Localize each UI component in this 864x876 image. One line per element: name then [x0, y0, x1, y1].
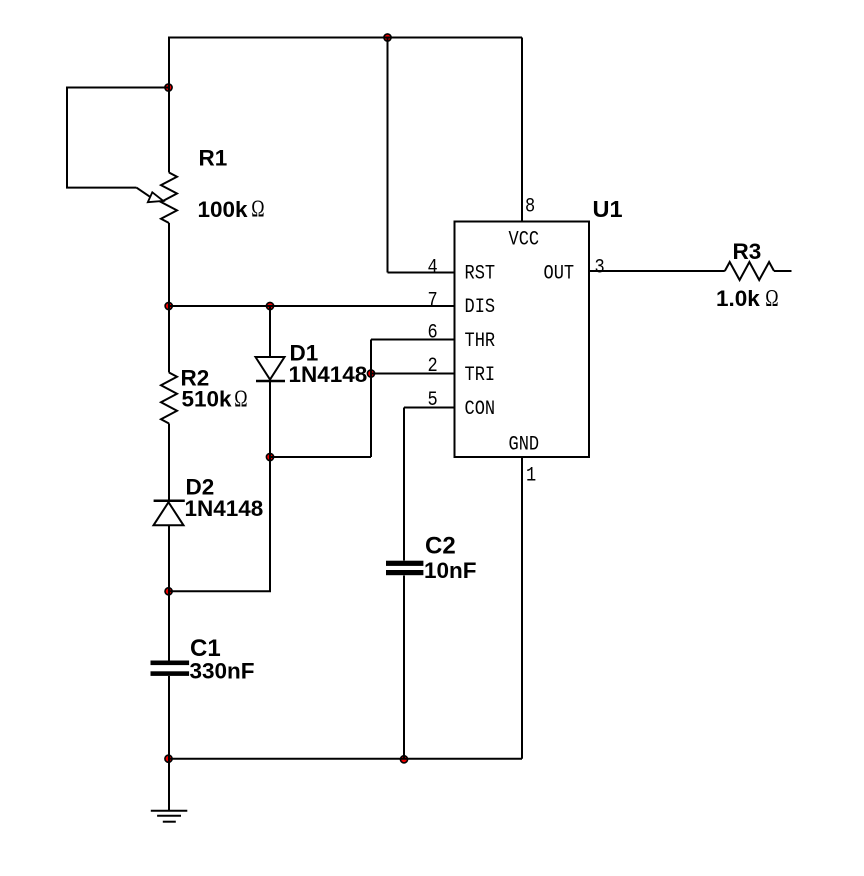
svg-text:GND: GND	[509, 433, 540, 456]
svg-text:4: 4	[428, 256, 438, 279]
svg-text:1N4148: 1N4148	[289, 362, 368, 387]
svg-text:VCC: VCC	[509, 228, 540, 251]
svg-text:C1: C1	[190, 635, 221, 662]
svg-text:OUT: OUT	[544, 262, 575, 285]
svg-text:DIS: DIS	[465, 296, 496, 319]
svg-text:3: 3	[595, 256, 605, 279]
svg-text:Ω: Ω	[234, 385, 247, 412]
svg-text:2: 2	[428, 355, 438, 378]
svg-text:1: 1	[526, 464, 536, 487]
svg-text:TRI: TRI	[465, 364, 496, 387]
svg-text:R1: R1	[199, 146, 228, 171]
svg-text:8: 8	[525, 195, 535, 218]
svg-text:1N4148: 1N4148	[185, 496, 264, 521]
svg-text:R3: R3	[733, 239, 762, 264]
svg-text:THR: THR	[465, 330, 496, 353]
svg-text:RST: RST	[465, 262, 496, 285]
svg-text:1.0k: 1.0k	[716, 286, 760, 311]
svg-text:U1: U1	[593, 196, 623, 222]
svg-text:7: 7	[428, 289, 438, 312]
svg-text:CON: CON	[465, 398, 496, 421]
svg-text:C2: C2	[425, 533, 456, 560]
svg-text:Ω: Ω	[251, 195, 264, 222]
svg-text:Ω: Ω	[765, 284, 778, 311]
svg-text:10nF: 10nF	[424, 558, 477, 583]
svg-text:510k: 510k	[182, 387, 233, 412]
svg-text:330nF: 330nF	[190, 659, 255, 684]
svg-text:5: 5	[428, 389, 438, 412]
svg-text:6: 6	[428, 321, 438, 344]
svg-text:100k: 100k	[198, 197, 249, 222]
